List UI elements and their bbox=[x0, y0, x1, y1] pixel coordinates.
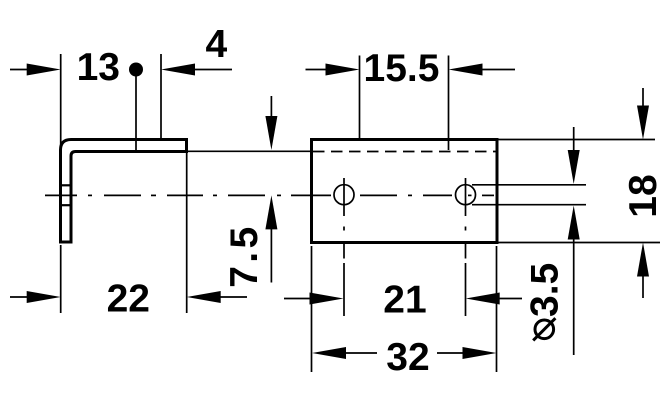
svg-text:21: 21 bbox=[383, 278, 426, 321]
svg-text:4: 4 bbox=[206, 23, 228, 66]
svg-text:7.5: 7.5 bbox=[223, 227, 266, 288]
svg-text:18: 18 bbox=[622, 174, 660, 217]
svg-text:15.5: 15.5 bbox=[364, 47, 440, 90]
svg-text:3.5: 3.5 bbox=[524, 263, 567, 317]
svg-text:32: 32 bbox=[386, 336, 429, 379]
svg-text:13: 13 bbox=[77, 46, 120, 89]
svg-text:22: 22 bbox=[107, 278, 150, 321]
